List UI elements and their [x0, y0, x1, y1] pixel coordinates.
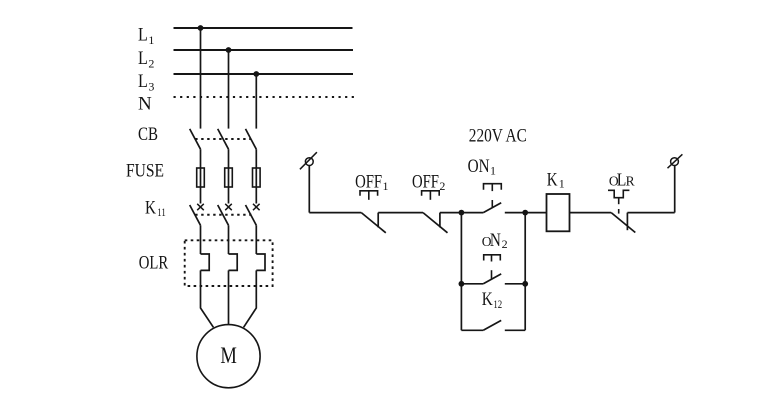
- contactor K11 pole 3 cross contact: [253, 204, 260, 210]
- label OFF1: [355, 171, 388, 193]
- pushbutton OFF2 NC contact blade: [423, 213, 448, 233]
- svg-text:R: R: [626, 173, 635, 188]
- contactor K11 pole 1 cross contact: [197, 204, 204, 210]
- wire phase A from OLR to motor: [201, 270, 214, 327]
- pushbutton ON1 actuator cap: [484, 184, 502, 191]
- svg-text:L: L: [138, 48, 148, 69]
- CB mechanical link (dotted): [195, 138, 251, 140]
- wire rail node A to ON1: [461, 212, 483, 214]
- fuse F1: [197, 168, 205, 187]
- circuit breaker CB pole 2: [218, 129, 229, 149]
- label 220V AC: [469, 127, 527, 147]
- wire rail OLR contact to right terminal: [627, 212, 674, 214]
- wire phase C from CB to K11: [255, 149, 257, 203]
- circuit breaker CB pole 3: [246, 129, 257, 149]
- label ON1: [468, 156, 496, 178]
- OLR heater element phase C: [256, 254, 265, 270]
- right supply terminal: [668, 154, 683, 168]
- svg-text:2: 2: [502, 237, 508, 251]
- pushbutton ON2 actuator cap: [484, 255, 501, 262]
- svg-text:12: 12: [493, 297, 502, 311]
- OLR fixed contact post: [626, 213, 628, 231]
- K11 mechanical link (dotted): [195, 214, 251, 216]
- wire phase C drop from L3 to CB: [255, 74, 257, 129]
- wire phase B from CB to K11: [228, 149, 230, 203]
- contactor K11 pole 3 blade: [246, 205, 257, 225]
- overload relay OLR dashed box: [185, 240, 273, 286]
- node A (junction dot): [459, 210, 465, 216]
- label CB: [138, 124, 158, 145]
- wire phase B from OLR to motor: [228, 270, 230, 324]
- wire phase A from K11 to OLR: [200, 225, 202, 254]
- wire K12 branch right: [505, 329, 525, 331]
- label L1: [138, 25, 154, 48]
- label FUSE: [126, 160, 164, 181]
- wire from left terminal down: [308, 166, 310, 213]
- fuse F3: [253, 168, 261, 187]
- wire up to right terminal: [674, 165, 676, 212]
- svg-text:1: 1: [383, 179, 389, 193]
- label L2: [138, 48, 154, 71]
- pushbutton OFF1 NC contact blade: [361, 213, 386, 233]
- pushbutton ON2 actuator stem: [491, 270, 493, 279]
- node C (junction dot): [459, 281, 465, 287]
- svg-text:CB: CB: [138, 124, 158, 145]
- svg-text:220V AC: 220V AC: [469, 127, 527, 147]
- left supply terminal: [300, 152, 317, 169]
- power line L3: [174, 73, 354, 75]
- OLR heater element phase A: [201, 254, 210, 270]
- svg-text:FUSE: FUSE: [126, 160, 164, 181]
- svg-text:1: 1: [148, 33, 154, 47]
- node D (junction dot): [522, 281, 528, 287]
- label M: [220, 343, 237, 368]
- label K11: [145, 197, 166, 219]
- wire ON2 branch left: [461, 283, 483, 285]
- svg-text:1: 1: [490, 164, 496, 178]
- label OLR: [139, 252, 169, 273]
- neutral line N (dotted): [174, 96, 355, 98]
- label OFF2: [412, 171, 445, 193]
- coil K1: [547, 194, 570, 231]
- svg-text:ON: ON: [468, 156, 490, 177]
- label K12: [482, 289, 503, 311]
- power line L1: [174, 27, 353, 29]
- svg-text:K: K: [482, 289, 493, 310]
- svg-text:2: 2: [439, 179, 445, 193]
- wire rail ON1 to node B: [505, 212, 525, 214]
- svg-text:K: K: [547, 169, 558, 190]
- wire phase B drop from L2 to CB: [228, 50, 230, 129]
- motor M circle: [197, 325, 260, 388]
- wire rail OFF1 to OFF2: [378, 212, 423, 214]
- pushbutton OFF1 fixed contact post: [377, 213, 379, 228]
- svg-text:M: M: [220, 343, 237, 368]
- label ON2: [482, 231, 508, 251]
- contactor K11 pole 2 cross contact: [225, 204, 232, 210]
- OLR heater element phase B: [229, 254, 238, 270]
- svg-text:L: L: [138, 71, 148, 92]
- wire rail OFF2 to node A: [440, 212, 462, 214]
- wire phase C from OLR to motor: [244, 270, 257, 327]
- pushbutton ON2 NO contact blade: [483, 274, 501, 284]
- wire K12 branch left: [461, 329, 483, 331]
- svg-text:OFF: OFF: [412, 171, 439, 192]
- fuse F2: [225, 168, 233, 187]
- OLR trip element symbol: [608, 190, 629, 204]
- contact K12 NO blade: [483, 320, 501, 330]
- node on L1 (junction dot): [198, 25, 204, 31]
- svg-text:1: 1: [559, 176, 565, 190]
- circuit breaker CB pole 1: [190, 129, 201, 149]
- wire rail K1 to OLR contact: [570, 212, 612, 214]
- node on L3 (junction dot): [253, 71, 259, 77]
- pushbutton ON1 actuator stem: [491, 200, 493, 207]
- label L3: [138, 71, 154, 94]
- wire phase A drop from L1 to CB: [200, 28, 202, 129]
- svg-text:2: 2: [148, 57, 154, 71]
- label K1: [547, 169, 565, 190]
- svg-text:N: N: [138, 94, 152, 115]
- wire right branch vertical (node B down to K12 branch): [524, 213, 526, 331]
- wire phase A from CB to K11: [200, 149, 202, 203]
- svg-text:OLR: OLR: [139, 252, 169, 273]
- svg-text:11: 11: [157, 205, 166, 219]
- wire phase B from K11 to OLR: [228, 225, 230, 254]
- label OLR (control contact): [609, 169, 635, 189]
- pushbutton ON1 NO contact blade: [483, 203, 501, 213]
- node B (junction dot): [522, 210, 528, 216]
- wire left branch vertical (node A down to K12 branch): [460, 213, 462, 331]
- OLR actuator dash: [618, 209, 620, 214]
- wire rail to OFF1: [309, 212, 361, 214]
- OLR NC contact blade: [611, 213, 635, 233]
- contactor K11 pole 1 blade: [190, 205, 201, 225]
- svg-text:N: N: [490, 231, 501, 251]
- pushbutton OFF1 actuator cap: [360, 191, 378, 200]
- svg-text:K: K: [145, 197, 156, 218]
- pushbutton OFF2 fixed contact post: [439, 213, 441, 228]
- wire phase C from K11 to OLR: [255, 225, 257, 254]
- contactor K11 pole 2 blade: [218, 205, 229, 225]
- wire rail node B to K1 coil: [525, 212, 546, 214]
- svg-text:OFF: OFF: [355, 171, 382, 192]
- wire ON2 branch right: [505, 283, 525, 285]
- power line L2: [174, 49, 354, 51]
- svg-text:L: L: [138, 25, 148, 46]
- node on L2 (junction dot): [226, 47, 232, 53]
- svg-text:3: 3: [148, 80, 154, 94]
- pushbutton OFF2 actuator cap: [422, 191, 440, 200]
- label N: [138, 94, 152, 115]
